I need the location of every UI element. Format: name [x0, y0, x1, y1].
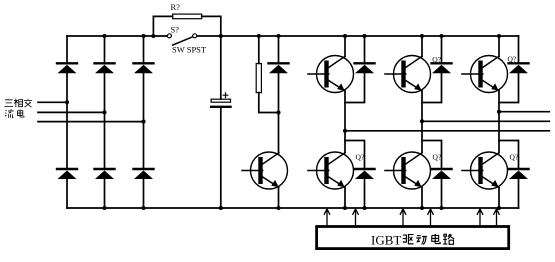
wire Q6 emitter to bottom bus [498, 188, 500, 209]
label Q2 Q? [432, 55, 441, 64]
diode D11 freewheel bottom B [422, 141, 452, 209]
diode D12 freewheel top C [499, 36, 529, 103]
wire phase B column [421, 91, 423, 153]
svg-text:IGBT: IGBT [371, 233, 401, 248]
wire R2 top lead [258, 36, 260, 64]
node dots bottom bus [102, 206, 501, 210]
transistor Q1 top leg A [308, 56, 354, 93]
wire Q1 collector to top bus [344, 36, 346, 56]
svg-text:SW SPST: SW SPST [172, 45, 207, 55]
label Q5 Q? [433, 153, 442, 162]
diode D1 rectifier top 1 [57, 63, 77, 73]
wire capacitor bottom lead [220, 108, 222, 208]
diode D10 freewheel top B [422, 36, 452, 103]
switch S1 lever [173, 37, 193, 45]
wire Q2 collector to top bus [421, 36, 423, 56]
svg-text:Q?: Q? [508, 55, 517, 64]
diode D9 freewheel bottom A [345, 141, 375, 209]
wire R1 bypass left riser [153, 16, 172, 36]
transistor Q7 [242, 152, 288, 189]
diode D5 rectifier bottom 2 [95, 169, 115, 179]
svg-text:Q?: Q? [433, 153, 442, 162]
wire R2 bottom lead to node [259, 93, 279, 113]
transistor Q2 top leg B [385, 56, 431, 93]
label three-phase AC 三相交 [4, 99, 32, 108]
wire Q3 collector to top bus [498, 36, 500, 56]
wire Q4 emitter to bottom bus [344, 188, 346, 209]
node dots AC inputs [65, 100, 146, 123]
wire phase A output [345, 130, 549, 132]
resistor R1 [173, 14, 202, 19]
wire R1 bypass right riser [202, 16, 221, 36]
node dot R2-D7 junction [276, 110, 280, 114]
transistor Q4 bottom leg A [308, 152, 354, 189]
node dots phase outputs [343, 110, 501, 133]
wire phase C output [499, 111, 549, 113]
svg-text:R?: R? [171, 2, 181, 12]
wire top bus right segment [197, 35, 519, 37]
wire D7 column upper [278, 36, 280, 63]
diode D8 freewheel top A [345, 36, 375, 103]
IGBT drive circuit box U1 [317, 227, 509, 249]
wire Q5 emitter to bottom bus [421, 188, 423, 209]
label drive circuit CJK 驱动电路 [403, 234, 454, 245]
switch S1 left contact [167, 34, 171, 38]
wire phase C column [498, 91, 500, 153]
label IGBT drive circuit text [371, 233, 401, 248]
svg-text:S?: S? [171, 24, 180, 34]
wire rectifier column 2 [104, 36, 106, 208]
wire capacitor top lead [220, 36, 222, 99]
diode D3 rectifier top 3 [134, 63, 154, 73]
wire Q7 emitter to bottom bus [278, 188, 280, 209]
transistor Q3 top leg C [462, 56, 508, 93]
wire AC input line 1 [38, 101, 67, 103]
resistor R2 [256, 64, 261, 93]
diode D13 freewheel bottom C [499, 141, 529, 209]
wire top bus left segment [67, 35, 167, 37]
label Q3 Q? [508, 55, 517, 64]
transistor Q6 bottom leg C [462, 152, 508, 189]
svg-text:Q?: Q? [356, 153, 365, 162]
drive arrows [324, 209, 500, 227]
wire rectifier column 3 [143, 36, 145, 208]
diode D7 [269, 63, 289, 73]
diode D2 rectifier top 2 [95, 63, 115, 73]
svg-text:Q?: Q? [510, 153, 519, 162]
label three-phase AC 流电 [5, 109, 24, 117]
wire AC input line 2 [38, 111, 105, 113]
wire AC input line 3 [38, 121, 144, 123]
switch S1 right contact [193, 34, 197, 38]
wire phase A column [344, 91, 346, 153]
wire D7 to Q7 collector [278, 73, 280, 152]
label S1 name S? [171, 24, 180, 34]
svg-text:Q?: Q? [432, 55, 441, 64]
capacitor C1 electrolytic [211, 93, 230, 107]
label R1 value R? [171, 2, 181, 12]
label S1 value SW SPST [172, 45, 207, 55]
diode D6 rectifier bottom 3 [134, 169, 154, 179]
wire bottom bus [67, 207, 519, 209]
transistor Q5 bottom leg B [385, 152, 431, 189]
wire phase B output [422, 120, 549, 122]
diode D4 rectifier bottom 1 [57, 169, 77, 179]
label Q6 Q? [510, 153, 519, 162]
label Q4 Q? [356, 153, 365, 162]
wire rectifier column 1 [66, 36, 68, 208]
node dots top bus [102, 34, 501, 38]
